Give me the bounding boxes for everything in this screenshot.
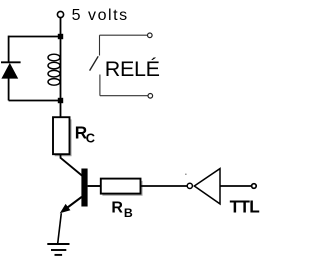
relay contact: bottom terminal circle — [148, 94, 153, 99]
transistor Q1 base bar — [81, 169, 87, 207]
node A junction — [58, 34, 63, 39]
wire emitter to ground — [58, 213, 62, 243]
relay contact: bottom wire — [100, 95, 148, 97]
terminal 5V — [57, 11, 63, 17]
relay contact: top wire — [100, 34, 148, 36]
wire diode branch lower — [8, 78, 10, 100]
inverter U1 triangle — [194, 169, 220, 204]
speck — [185, 174, 186, 175]
wire diode branch upper — [8, 36, 10, 63]
svg-text:B: B — [124, 206, 133, 220]
inverter U1 bubble — [187, 183, 192, 188]
relay coil L1 — [48, 54, 60, 85]
emitter arrowhead — [60, 204, 71, 213]
svg-text:TTL: TTL — [230, 197, 260, 217]
svg-text:C: C — [86, 130, 95, 145]
diode D1 body — [1, 63, 18, 79]
svg-text:RELÉ: RELÉ — [105, 56, 160, 81]
relay contact: top terminal circle — [148, 33, 153, 38]
wire RB to inverter bubble — [141, 185, 188, 187]
resistor RC shadow — [55, 119, 71, 155]
wire RC to collector stub — [60, 154, 62, 158]
resistor RC — [53, 117, 70, 154]
base lead — [88, 185, 102, 187]
resistor RB — [101, 179, 141, 194]
wire main vertical through coil — [60, 37, 62, 118]
relay contact: bottom vertical — [99, 75, 101, 96]
wire top horizontal to diode branch — [9, 36, 61, 38]
wire 5V to node A — [60, 18, 62, 37]
wire inverter to TTL terminal — [220, 185, 252, 187]
relay contact: switch arm — [90, 56, 99, 70]
svg-text:5 volts: 5 volts — [72, 7, 129, 24]
collector lead — [61, 158, 83, 176]
resistor RB shadow — [102, 181, 141, 195]
terminal TTL input — [252, 184, 257, 189]
ground — [47, 244, 69, 255]
diode D1 cathode bar — [1, 61, 21, 63]
node B junction — [58, 98, 63, 103]
wire bottom horizontal of diode loop — [9, 100, 61, 102]
relay contact: top vertical — [99, 35, 101, 55]
svg-text:R: R — [111, 200, 123, 217]
emitter lead — [62, 197, 82, 212]
